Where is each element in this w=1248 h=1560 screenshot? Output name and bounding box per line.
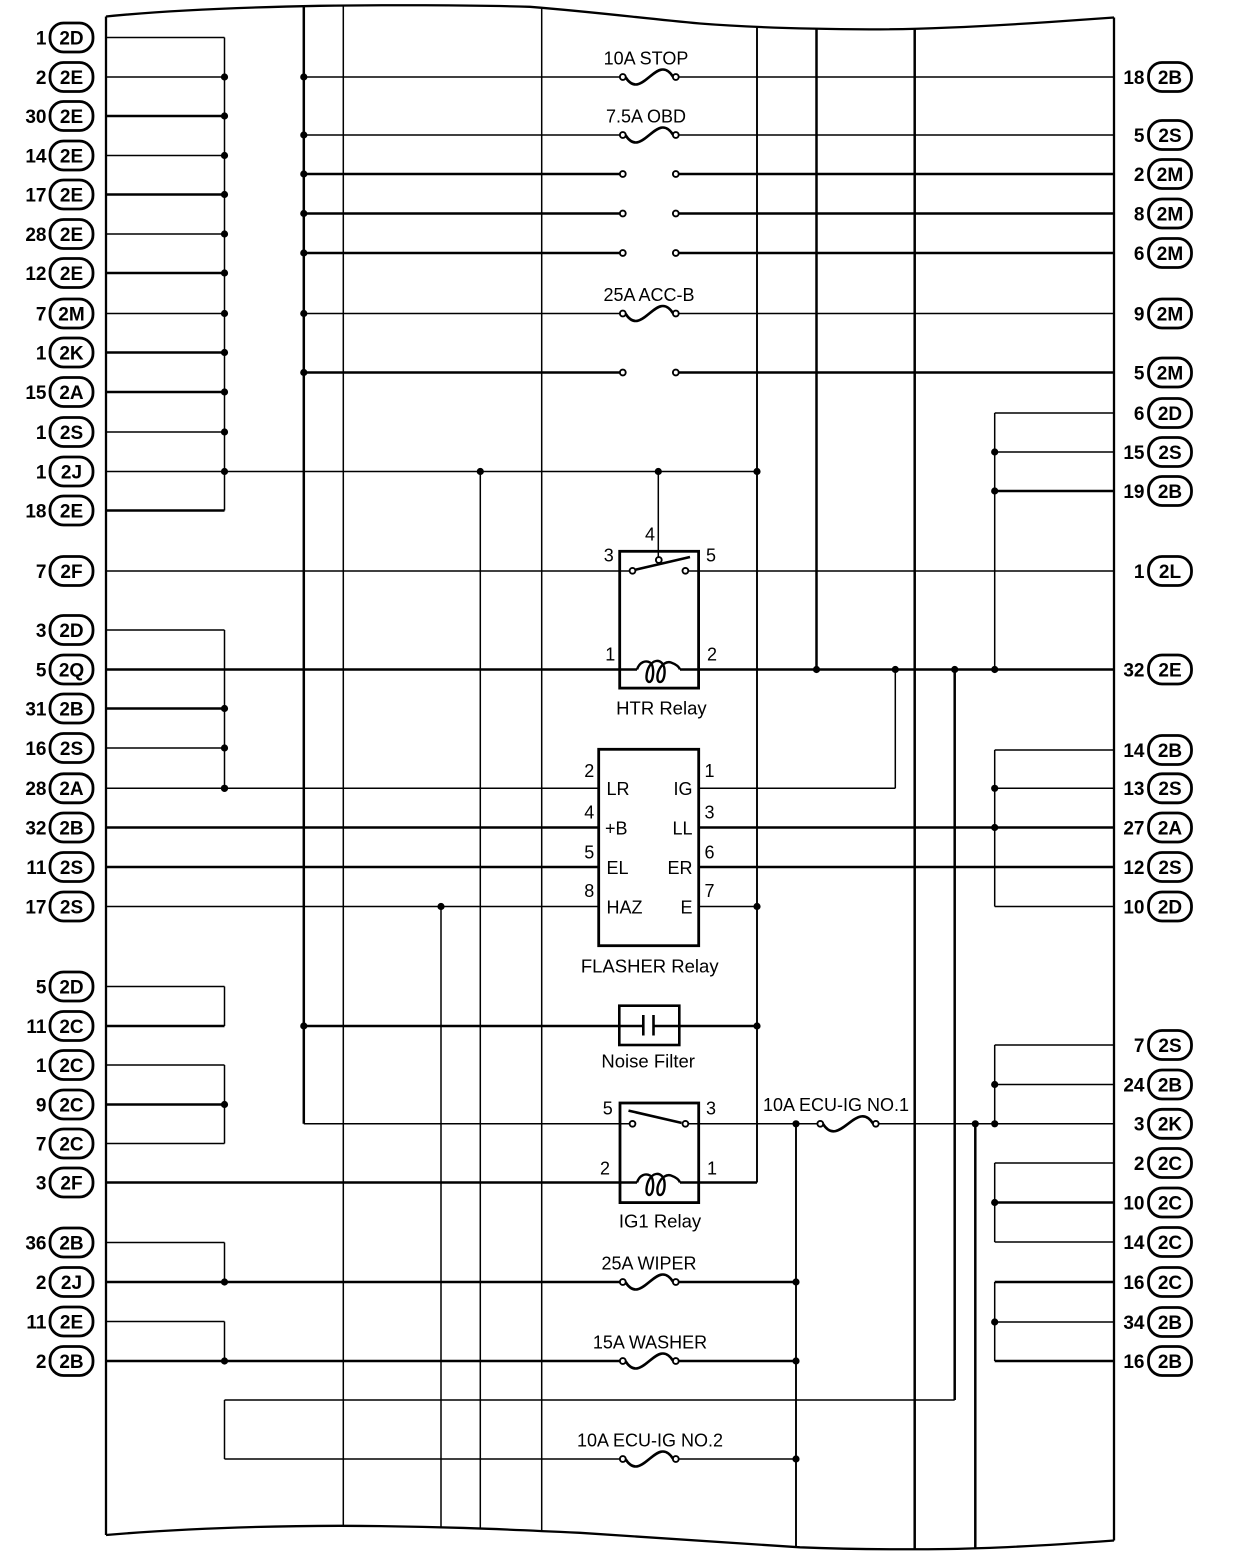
- svg-text:13: 13: [1123, 779, 1144, 800]
- svg-text:2M: 2M: [1157, 304, 1183, 325]
- svg-text:16: 16: [1123, 1352, 1144, 1373]
- svg-text:2B: 2B: [1158, 741, 1182, 762]
- svg-text:25A WIPER: 25A WIPER: [601, 1254, 696, 1274]
- svg-text:2K: 2K: [1158, 1115, 1183, 1136]
- svg-text:3: 3: [706, 1098, 716, 1118]
- svg-text:30: 30: [25, 107, 46, 128]
- svg-text:10: 10: [1123, 1193, 1144, 1214]
- svg-text:1: 1: [36, 343, 47, 364]
- svg-text:2S: 2S: [1158, 443, 1181, 464]
- svg-text:10A ECU-IG NO.2: 10A ECU-IG NO.2: [577, 1431, 723, 1451]
- svg-text:5: 5: [584, 843, 594, 863]
- svg-text:1: 1: [36, 1056, 47, 1077]
- svg-text:7: 7: [36, 562, 47, 583]
- svg-text:7: 7: [36, 304, 47, 325]
- svg-text:2S: 2S: [1158, 858, 1181, 879]
- svg-text:5: 5: [1134, 126, 1145, 147]
- svg-text:31: 31: [25, 699, 47, 720]
- svg-text:IG: IG: [673, 779, 692, 799]
- svg-text:2F: 2F: [60, 1173, 82, 1194]
- svg-text:32: 32: [25, 818, 46, 839]
- svg-text:IG1 Relay: IG1 Relay: [619, 1211, 702, 1232]
- svg-text:3: 3: [604, 546, 614, 566]
- svg-text:2M: 2M: [1157, 204, 1183, 225]
- svg-text:19: 19: [1123, 482, 1144, 503]
- svg-text:2E: 2E: [60, 146, 83, 167]
- svg-text:4: 4: [645, 525, 655, 545]
- svg-text:2A: 2A: [1158, 818, 1183, 839]
- svg-text:1: 1: [1134, 562, 1145, 583]
- svg-text:+B: +B: [605, 818, 628, 838]
- svg-text:11: 11: [26, 858, 47, 879]
- svg-text:E: E: [680, 897, 692, 917]
- svg-text:1: 1: [36, 462, 47, 483]
- svg-text:2D: 2D: [1158, 897, 1182, 918]
- svg-text:12: 12: [25, 264, 46, 285]
- svg-text:2S: 2S: [60, 858, 83, 879]
- svg-text:3: 3: [1134, 1115, 1145, 1136]
- svg-text:7: 7: [1134, 1036, 1145, 1057]
- svg-text:ER: ER: [667, 858, 692, 878]
- svg-text:2: 2: [36, 1352, 47, 1373]
- svg-text:28: 28: [25, 225, 46, 246]
- svg-text:7: 7: [36, 1134, 47, 1155]
- svg-text:2: 2: [600, 1159, 610, 1179]
- svg-text:1: 1: [36, 423, 47, 444]
- svg-text:HTR Relay: HTR Relay: [616, 698, 707, 719]
- svg-text:2F: 2F: [60, 562, 82, 583]
- svg-text:2Q: 2Q: [59, 660, 84, 681]
- svg-text:2L: 2L: [1159, 562, 1182, 583]
- svg-text:2: 2: [36, 68, 47, 89]
- svg-text:7.5A OBD: 7.5A OBD: [606, 107, 686, 127]
- svg-text:2B: 2B: [1158, 68, 1182, 89]
- svg-text:25A ACC-B: 25A ACC-B: [603, 285, 694, 305]
- svg-text:LL: LL: [672, 818, 692, 838]
- svg-text:2M: 2M: [58, 304, 84, 325]
- svg-text:18: 18: [1123, 68, 1144, 89]
- svg-text:5: 5: [36, 977, 47, 998]
- svg-text:2E: 2E: [60, 107, 83, 128]
- svg-text:9: 9: [36, 1095, 47, 1116]
- svg-text:2E: 2E: [60, 1312, 83, 1333]
- svg-text:2B: 2B: [59, 1233, 83, 1254]
- svg-text:17: 17: [25, 185, 46, 206]
- svg-text:2: 2: [1134, 165, 1145, 186]
- svg-text:12: 12: [1123, 858, 1144, 879]
- svg-text:28: 28: [25, 779, 46, 800]
- svg-text:3: 3: [36, 621, 47, 642]
- svg-text:1: 1: [707, 1159, 717, 1179]
- svg-text:2E: 2E: [60, 264, 83, 285]
- svg-text:2: 2: [36, 1273, 47, 1294]
- svg-text:7: 7: [704, 881, 714, 901]
- svg-text:8: 8: [1134, 204, 1145, 225]
- svg-text:2S: 2S: [60, 739, 83, 760]
- svg-text:16: 16: [25, 739, 46, 760]
- svg-text:5: 5: [36, 660, 47, 681]
- svg-text:2J: 2J: [61, 1273, 82, 1294]
- svg-text:3: 3: [36, 1173, 47, 1194]
- svg-text:16: 16: [1123, 1273, 1144, 1294]
- svg-text:15: 15: [25, 383, 47, 404]
- svg-text:14: 14: [1123, 741, 1145, 762]
- svg-text:2C: 2C: [59, 1095, 84, 1116]
- svg-text:2K: 2K: [59, 343, 84, 364]
- svg-text:2E: 2E: [60, 185, 83, 206]
- svg-text:10A ECU-IG NO.1: 10A ECU-IG NO.1: [763, 1095, 909, 1115]
- svg-text:2A: 2A: [59, 779, 84, 800]
- svg-text:2M: 2M: [1157, 363, 1183, 384]
- svg-text:HAZ: HAZ: [607, 897, 643, 917]
- svg-text:LR: LR: [607, 779, 630, 799]
- svg-text:1: 1: [704, 761, 714, 781]
- svg-text:11: 11: [26, 1312, 47, 1333]
- svg-text:32: 32: [1123, 660, 1144, 681]
- svg-text:2: 2: [1134, 1154, 1145, 1175]
- svg-text:2D: 2D: [59, 28, 83, 49]
- svg-text:2B: 2B: [59, 818, 83, 839]
- svg-text:34: 34: [1123, 1313, 1145, 1334]
- svg-text:2B: 2B: [1158, 1313, 1182, 1334]
- svg-text:2B: 2B: [59, 1352, 83, 1373]
- svg-text:5: 5: [1134, 363, 1145, 384]
- svg-text:2D: 2D: [1158, 404, 1182, 425]
- svg-text:2S: 2S: [1158, 1036, 1181, 1057]
- svg-text:2E: 2E: [60, 68, 83, 89]
- svg-text:Noise Filter: Noise Filter: [601, 1051, 695, 1072]
- svg-text:2S: 2S: [1158, 779, 1181, 800]
- svg-text:10A STOP: 10A STOP: [604, 49, 689, 69]
- svg-text:4: 4: [584, 803, 594, 823]
- svg-text:2D: 2D: [59, 977, 83, 998]
- svg-text:17: 17: [25, 897, 46, 918]
- svg-text:2C: 2C: [59, 1056, 84, 1077]
- svg-text:2S: 2S: [1158, 126, 1181, 147]
- svg-text:15: 15: [1123, 443, 1145, 464]
- svg-text:14: 14: [25, 146, 47, 167]
- svg-text:2B: 2B: [59, 699, 83, 720]
- svg-text:2M: 2M: [1157, 165, 1183, 186]
- svg-text:2E: 2E: [60, 225, 83, 246]
- svg-text:2C: 2C: [1158, 1193, 1183, 1214]
- svg-text:2C: 2C: [1158, 1233, 1183, 1254]
- svg-text:3: 3: [704, 803, 714, 823]
- svg-text:1: 1: [36, 28, 47, 49]
- svg-text:2B: 2B: [1158, 482, 1182, 503]
- svg-text:27: 27: [1123, 818, 1144, 839]
- svg-text:9: 9: [1134, 304, 1145, 325]
- svg-text:2B: 2B: [1158, 1075, 1182, 1096]
- svg-text:2B: 2B: [1158, 1352, 1182, 1373]
- svg-text:2D: 2D: [59, 621, 83, 642]
- svg-text:6: 6: [1134, 244, 1145, 265]
- svg-text:10: 10: [1123, 897, 1144, 918]
- svg-text:6: 6: [1134, 404, 1145, 425]
- svg-text:5: 5: [603, 1098, 613, 1118]
- svg-text:14: 14: [1123, 1233, 1145, 1254]
- svg-text:2C: 2C: [1158, 1154, 1183, 1175]
- svg-text:2A: 2A: [59, 383, 84, 404]
- svg-text:36: 36: [25, 1233, 46, 1254]
- svg-text:6: 6: [704, 843, 714, 863]
- svg-text:2: 2: [584, 761, 594, 781]
- svg-text:EL: EL: [607, 858, 629, 878]
- svg-text:11: 11: [26, 1017, 47, 1038]
- svg-text:2S: 2S: [60, 423, 83, 444]
- svg-text:2C: 2C: [59, 1134, 84, 1155]
- svg-text:5: 5: [706, 546, 716, 566]
- svg-text:2E: 2E: [1158, 660, 1181, 681]
- svg-text:2: 2: [707, 644, 717, 664]
- svg-text:18: 18: [25, 501, 46, 522]
- svg-text:15A WASHER: 15A WASHER: [593, 1333, 707, 1353]
- svg-text:FLASHER Relay: FLASHER Relay: [581, 956, 720, 977]
- svg-text:8: 8: [584, 881, 594, 901]
- svg-text:2C: 2C: [1158, 1273, 1183, 1294]
- svg-text:1: 1: [605, 644, 615, 664]
- svg-text:2C: 2C: [59, 1017, 84, 1038]
- svg-text:2S: 2S: [60, 897, 83, 918]
- svg-text:24: 24: [1123, 1075, 1145, 1096]
- svg-text:2E: 2E: [60, 501, 83, 522]
- svg-text:2M: 2M: [1157, 244, 1183, 265]
- svg-text:2J: 2J: [61, 462, 82, 483]
